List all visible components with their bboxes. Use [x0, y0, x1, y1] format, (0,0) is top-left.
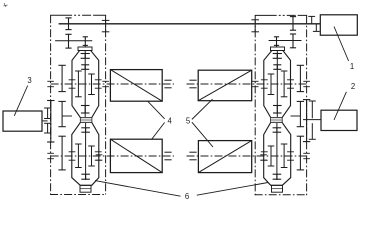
break symbol right of BL motor	[164, 151, 171, 153]
idler gear column mid left	[61, 101, 63, 126]
right clutch halves	[309, 100, 316, 102]
upper axle axis right	[187, 83, 307, 85]
side caps upper left right	[287, 79, 294, 81]
hourglass waist band right	[271, 117, 283, 122]
idler gear column bottom left	[61, 136, 63, 170]
planet gear left lower left	[77, 144, 79, 168]
break symbol left of BR motor	[189, 151, 196, 153]
leader 6 right	[197, 183, 268, 196]
shaft box3	[42, 120, 48, 122]
upper axle axis left	[51, 83, 174, 85]
side caps lower right right	[261, 151, 268, 153]
mesh mark inner-right border upper	[252, 80, 259, 82]
coupling half to box 1	[313, 30, 320, 32]
mesh mark inner-left border upper	[102, 80, 109, 82]
gear on shaft A right	[292, 17, 294, 31]
left gear G3	[84, 37, 86, 46]
hourglass waist band left	[80, 117, 92, 122]
leader line 2	[334, 92, 346, 120]
planet gear left upper left	[77, 71, 79, 97]
svg-text:3: 3	[27, 76, 31, 85]
box 3	[3, 111, 42, 131]
leader 5 lower	[192, 122, 213, 147]
leader line 3	[14, 86, 27, 116]
gear on shaft A left	[68, 18, 70, 30]
svg-text:6: 6	[185, 192, 189, 201]
transfer shaft line A	[59, 23, 321, 25]
bottom ring pad right	[272, 185, 283, 192]
motor-generator box bottom-right	[198, 141, 251, 173]
break symbol right of TL motor	[164, 79, 171, 81]
svg-text:2: 2	[351, 82, 355, 91]
mesh mark left border lower	[47, 152, 54, 154]
box 2	[321, 110, 357, 130]
planet gear left lower right	[283, 144, 285, 168]
right gear G3	[276, 37, 278, 46]
right axle housing chain border bottom	[255, 194, 307, 196]
upper planetary carrier outline left	[72, 51, 99, 118]
left axle housing chain border bottom	[50, 194, 106, 196]
svg-text:4: 4	[168, 117, 173, 126]
sun shaft right	[276, 51, 278, 118]
left wheel gear on border	[50, 101, 52, 143]
leader line 1	[334, 27, 349, 62]
bottom ring pad left	[80, 185, 91, 192]
lower planetary carrier outline right	[264, 123, 291, 186]
sun gear lower bottom right	[273, 173, 282, 175]
engine box 1	[320, 15, 357, 35]
break symbol left of TR motor	[189, 79, 196, 81]
shaft box2	[303, 119, 321, 121]
sun gear upper mid left	[81, 64, 89, 66]
sun gear upper top right	[273, 53, 282, 55]
lower axle axis right	[187, 155, 307, 157]
right gear G2	[292, 34, 294, 48]
left axle housing chain border left	[50, 15, 52, 194]
motor-generator box top-right	[198, 70, 252, 101]
motor-generator box bottom-left	[110, 139, 162, 172]
side caps upper right left	[95, 79, 102, 81]
right axle housing chain border left	[254, 15, 256, 195]
sun shaft left	[84, 51, 86, 118]
ring top pad left	[78, 47, 92, 51]
planet gear right upper right	[270, 74, 272, 95]
leader 4 upper	[148, 102, 165, 119]
sun gear lower top right	[273, 127, 282, 129]
right axle housing chain border right	[306, 15, 308, 195]
scan artifact mark	[4, 3, 8, 7]
right axle housing chain border top	[255, 14, 307, 16]
upper planetary carrier outline right	[264, 51, 291, 118]
right border pinion at shaft A	[251, 19, 259, 21]
coupling gears to box 1	[308, 15, 315, 17]
mesh mark right border lower	[303, 152, 310, 154]
leader 6 left	[95, 181, 181, 197]
lower planetary carrier outline left	[72, 123, 99, 186]
sun gear lower top left	[81, 127, 90, 129]
right wheel gear on border	[306, 100, 308, 142]
sun gear upper bottom left	[81, 105, 90, 107]
left gear G2	[68, 34, 70, 48]
sun gear upper mid right	[273, 64, 281, 66]
planet gear left upper right	[283, 71, 285, 97]
mesh mark left border upper	[47, 80, 54, 82]
idler gear column top right	[299, 65, 301, 91]
carrier arm left	[62, 115, 72, 117]
left countershaft line B	[55, 40, 92, 42]
sun gear upper top left	[81, 53, 90, 55]
leader 4 lower	[151, 123, 164, 140]
mesh mark inner-right border lower	[260, 154, 267, 156]
svg-text:1: 1	[350, 62, 354, 71]
left axle housing chain border top	[50, 14, 106, 16]
side caps upper left left	[69, 79, 76, 81]
planet gear right upper left	[91, 74, 93, 95]
right countershaft line B	[269, 40, 302, 42]
planet gear right lower left	[91, 146, 93, 166]
idler gear column mid right	[299, 101, 301, 126]
leader 5 upper	[192, 99, 213, 119]
side caps lower left right	[287, 151, 294, 153]
left axle housing chain border right	[105, 15, 107, 194]
side caps upper right right	[261, 79, 268, 81]
planet gear right lower right	[270, 146, 272, 166]
lower axle axis left	[51, 155, 174, 157]
sun gear upper bottom right	[273, 105, 282, 107]
mesh mark inner-left border lower	[96, 154, 103, 156]
mesh mark right border upper	[303, 80, 310, 82]
side caps lower right left	[95, 151, 102, 153]
left border pinion at shaft A	[102, 19, 110, 21]
left clutch halves	[44, 107, 51, 109]
sun gear lower bottom left	[81, 173, 90, 175]
motor-generator box top-left	[110, 70, 162, 102]
svg-text:5: 5	[186, 117, 191, 126]
idler gear column bottom right	[299, 136, 301, 170]
side caps lower left left	[69, 151, 76, 153]
carrier arm right	[291, 115, 301, 117]
idler gear column top left	[61, 65, 63, 91]
ring top pad right	[271, 47, 285, 51]
